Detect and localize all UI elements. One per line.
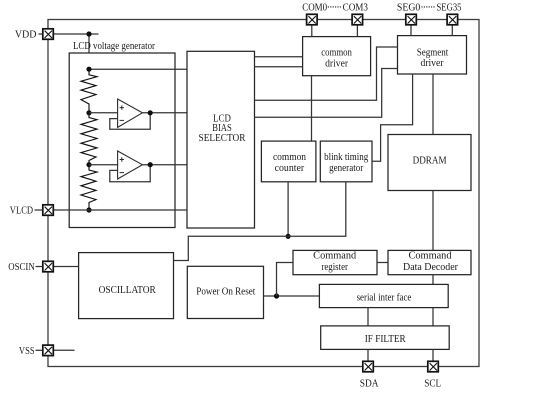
label: dotted leader SEG0..SEG35 [421, 6, 435, 8]
svg-text:DDRAM: DDRAM [413, 156, 447, 167]
svg-text:blink timing: blink timing [324, 152, 368, 163]
pin SEG0 [397, 2, 420, 24]
svg-text:common: common [273, 152, 306, 163]
node: tap 1 [86, 110, 91, 115]
svg-text:OSCILLATOR: OSCILLATOR [99, 285, 157, 296]
svg-text:Segment: Segment [417, 48, 449, 59]
block: common driver [303, 37, 371, 76]
pin OSCIN [8, 261, 53, 273]
node: U1 output junction [148, 110, 153, 115]
wire: tap1 to op-amp U1 + input [89, 112, 118, 114]
block: blink timing generator [320, 141, 372, 182]
wire: SEG35 pad to Segment driver [451, 25, 453, 36]
op-amp U1 [118, 99, 143, 127]
pin SCL [424, 361, 441, 389]
node: timing bus junction [286, 234, 291, 239]
resistor R3 [81, 165, 97, 210]
pin VLCD [10, 205, 54, 217]
svg-text:counter: counter [275, 163, 305, 174]
label: dotted leader COM0..COM3 [328, 6, 342, 8]
wire: IF FILTER to SDA pad [367, 349, 369, 361]
svg-text:OSCIN: OSCIN [8, 262, 34, 273]
pin SDA [360, 361, 380, 389]
svg-text:SCL: SCL [424, 379, 441, 390]
wire: U2 output to LCD BIAS SELECTOR [142, 164, 187, 166]
block: Command register [293, 250, 377, 274]
node: U2 output junction [148, 162, 153, 167]
wire: outer boundary rectangle [48, 20, 479, 367]
svg-text:serial inter face: serial inter face [357, 293, 412, 304]
wire: bias output 3 to Segment driver [255, 47, 398, 100]
wire: VLCD rail to LCD BIAS SELECTOR [54, 209, 188, 211]
wire: COM3 pad to common driver [356, 25, 358, 37]
node A (VDD junction) [86, 31, 91, 36]
svg-text:register: register [321, 262, 348, 273]
resistor R2 [81, 113, 97, 165]
svg-text:driver: driver [325, 58, 349, 69]
svg-text:SEG0: SEG0 [397, 2, 420, 13]
wire: tap2 to op-amp U2 + input [89, 164, 118, 166]
wire: serial interface to IF FILTER (SCL side) [432, 308, 434, 326]
svg-text:VDD: VDD [15, 29, 37, 40]
svg-text:Command: Command [313, 251, 356, 262]
block: Power On Reset [187, 266, 263, 318]
pin COM3 [343, 2, 368, 24]
svg-text:IF FILTER: IF FILTER [365, 334, 406, 345]
wire: U1 feedback loop [110, 113, 150, 130]
op-amp U2 [118, 151, 143, 179]
wire: OSCIN pad to OSCILLATOR [54, 266, 79, 268]
wire: Segment driver to DDRAM [432, 74, 434, 135]
wire: SEG0 pad to Segment driver [410, 25, 412, 36]
svg-text:COM3: COM3 [343, 2, 368, 13]
node: ladder bottom on VLCD rail [86, 207, 91, 212]
wire: blink timing generator to oscillator bus [174, 182, 346, 261]
block: IF FILTER [321, 326, 450, 350]
wire: bias output 4 to Segment driver [255, 69, 398, 118]
wire: ladder top tap to LCD BIAS SELECTOR [89, 68, 187, 70]
wire: DDRAM to Command Data Decoder [432, 191, 434, 251]
wire: Power On Reset output to serial interface [264, 295, 320, 297]
svg-text:Power On Reset: Power On Reset [196, 286, 255, 297]
block: OSCILLATOR [79, 253, 174, 319]
block: common counter [261, 141, 316, 182]
wire: node A down to resistor ladder top [88, 34, 90, 69]
wire: IF FILTER to SCL pad [432, 349, 434, 361]
pin VDD [15, 29, 53, 41]
svg-text:common: common [321, 48, 352, 59]
wire: VDD stub to node A [54, 33, 99, 35]
wire: VSS stub [54, 349, 75, 351]
block: LCD BIAS SELECTOR [187, 51, 255, 228]
wire: bias output 1 to common driver [255, 56, 303, 58]
svg-text:generator: generator [329, 163, 364, 174]
block: serial inter face [319, 284, 448, 307]
wire: common counter down to timing bus [287, 182, 289, 237]
wire: Command register to Command Data Decoder [377, 262, 388, 264]
block: Segment driver [398, 36, 467, 74]
svg-text:VSS: VSS [19, 346, 35, 357]
pin VSS [19, 345, 53, 357]
wire: U1 output to LCD BIAS SELECTOR [142, 112, 187, 114]
node: tap 2 [86, 162, 91, 167]
wire: Segment driver to blink timing generator [372, 74, 413, 161]
svg-text:SDA: SDA [360, 379, 380, 390]
svg-text:Command: Command [409, 251, 452, 262]
wire: U2 feedback loop [110, 165, 150, 182]
pin SEG35 [437, 2, 462, 24]
svg-text:SEG35: SEG35 [437, 2, 462, 13]
wire: POR junction up to Command register [277, 263, 294, 297]
block: LCD voltage generator box [69, 53, 175, 228]
resistor R1 [81, 69, 97, 113]
node: POR output junction [274, 293, 279, 298]
wire: common driver to common counter [311, 76, 313, 141]
block: DDRAM [388, 135, 471, 191]
node: ladder top tap [86, 67, 91, 72]
svg-text:Data Decoder: Data Decoder [403, 262, 459, 273]
wire: serial interface to IF FILTER (SDA side) [367, 308, 369, 326]
svg-text:COM0: COM0 [302, 2, 327, 13]
svg-text:LCD voltage generator: LCD voltage generator [73, 41, 156, 52]
svg-text:driver: driver [420, 58, 444, 69]
pin COM0 [302, 2, 327, 24]
wire: bias output 2 to common driver [255, 66, 303, 68]
block: Command Data Decoder [388, 250, 471, 274]
svg-text:VLCD: VLCD [10, 206, 33, 217]
wire: COM0 pad to common driver [311, 25, 313, 37]
svg-text:SELECTOR: SELECTOR [199, 133, 246, 144]
wire: Command Data Decoder to serial interface [432, 275, 434, 285]
